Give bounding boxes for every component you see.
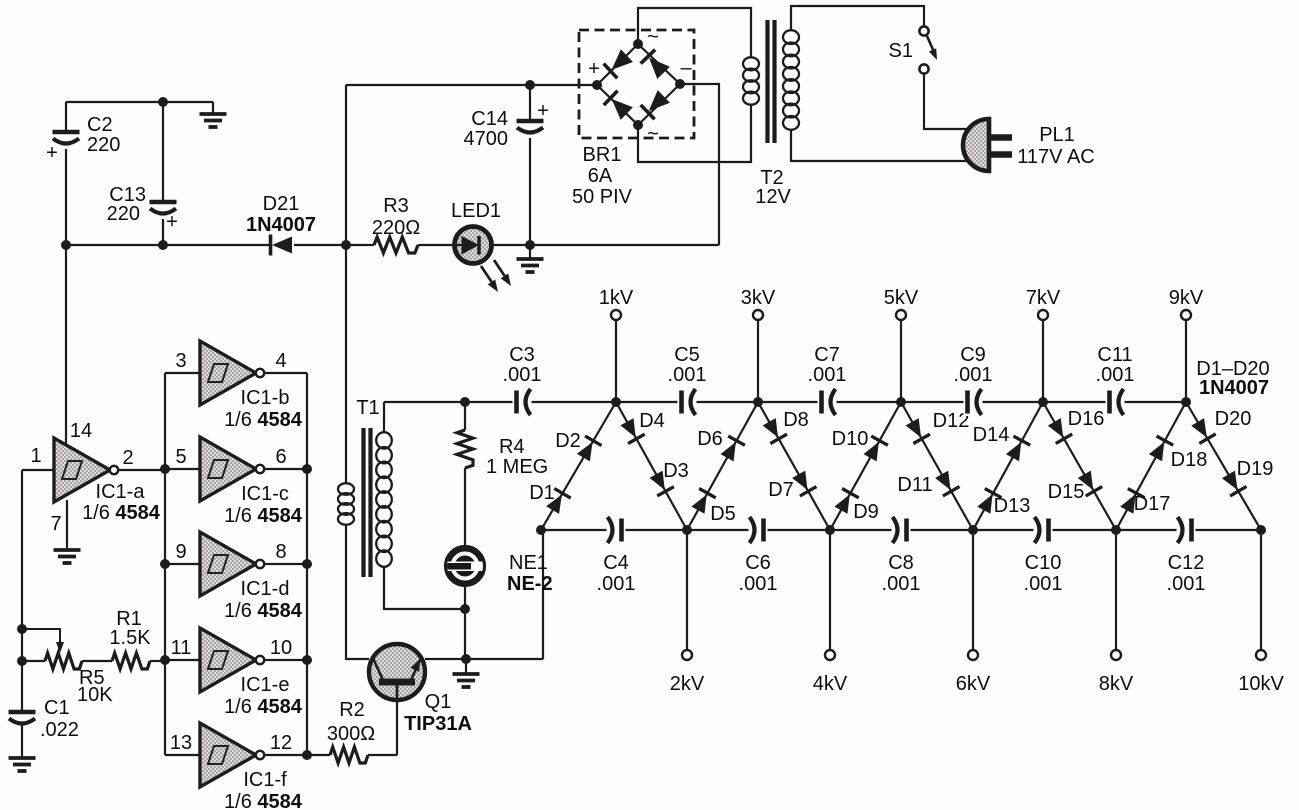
- wire output bus: [306, 373, 308, 755]
- wire IC1-f output: [264, 754, 307, 756]
- svg-text:D3: D3: [663, 460, 689, 482]
- wire ladder up-leg 4: [973, 402, 1043, 530]
- svg-text:.022: .022: [40, 719, 79, 741]
- diode D6 symbol: [721, 436, 745, 461]
- switch S1: [919, 26, 937, 73]
- svg-text:C9: C9: [960, 344, 986, 366]
- svg-text:C7: C7: [814, 344, 840, 366]
- svg-text:1 MEG: 1 MEG: [486, 456, 548, 478]
- diode D9 symbol: [834, 489, 858, 514]
- wire Q1 base lead: [396, 701, 398, 755]
- junction: [460, 604, 470, 614]
- wire bottom rail to D21: [66, 244, 272, 246]
- wire BR1 top to T2 primary: [638, 8, 751, 58]
- junction: [158, 97, 168, 107]
- wire top supply rail: [346, 84, 597, 86]
- svg-text:R2: R2: [339, 699, 365, 721]
- diode D15 symbol: [1078, 471, 1103, 496]
- wire IC1-b input: [165, 372, 200, 374]
- svg-text:D8: D8: [783, 409, 809, 431]
- wire ladder up-leg 1: [541, 402, 616, 530]
- svg-text:C10: C10: [1025, 552, 1062, 574]
- junction node 7kV: [1038, 397, 1048, 407]
- wire R2 to Q1 base: [368, 754, 397, 756]
- BR1 node ~ top: [633, 39, 643, 49]
- junction: [525, 240, 535, 250]
- transistor Q1: [369, 644, 425, 700]
- diode D2 symbol: [577, 436, 602, 461]
- LED LED1: [455, 227, 492, 264]
- junction: [158, 240, 168, 250]
- svg-text:IC1-c: IC1-c: [241, 483, 289, 505]
- svg-text:D15: D15: [1048, 481, 1085, 503]
- wire NE1 bottom: [464, 585, 466, 659]
- ground C1: [9, 758, 36, 771]
- junction: [17, 624, 27, 634]
- svg-text:D20: D20: [1215, 408, 1252, 430]
- svg-text:C2: C2: [87, 114, 113, 136]
- svg-text:D18: D18: [1171, 449, 1208, 471]
- svg-text:.001: .001: [1096, 364, 1135, 386]
- junction output bus: [302, 750, 312, 760]
- LED1 light arrows: [481, 260, 506, 284]
- wire C14 bottom lead: [529, 138, 531, 245]
- diode D20 symbol: [1191, 418, 1216, 443]
- junction node 3kV: [753, 397, 763, 407]
- inverter IC1-a: [54, 438, 118, 502]
- wire R4 to NE1: [464, 468, 466, 545]
- wire ladder down-leg 4: [1043, 402, 1116, 530]
- svg-text:3kV: 3kV: [741, 287, 776, 309]
- svg-text:6: 6: [275, 446, 286, 468]
- svg-text:C5: C5: [674, 344, 700, 366]
- wire 10kV stub: [1260, 530, 1262, 650]
- wire ladder return: [542, 530, 544, 659]
- diode D5 symbol: [691, 489, 715, 514]
- resistor R4: [457, 430, 473, 468]
- junction input bus: [160, 655, 170, 665]
- capacitor C3: [513, 388, 532, 416]
- diode D10 symbol: [864, 436, 888, 461]
- wire 5kV stub: [900, 320, 902, 402]
- svg-text:3: 3: [175, 350, 186, 372]
- diode D21 symbol: [271, 235, 293, 256]
- capacitor C5: [678, 388, 697, 416]
- wire ladder down-leg 2: [758, 402, 830, 530]
- wire ladder up-leg 2: [687, 402, 758, 530]
- svg-text:TIP31A: TIP31A: [404, 713, 472, 735]
- svg-text:9: 9: [175, 541, 186, 563]
- diode D11 symbol: [935, 471, 959, 496]
- wire IC1-d input: [165, 563, 200, 565]
- ground driver: [453, 674, 480, 687]
- svg-text:C8: C8: [888, 552, 914, 574]
- wire Q1 emitter to ladder: [425, 658, 543, 660]
- diode D8 symbol: [763, 418, 787, 443]
- inverter IC1-b: [200, 341, 264, 405]
- wire IC1-b output: [264, 372, 307, 374]
- svg-text:1/6 4584: 1/6 4584: [224, 791, 303, 810]
- svg-text:.001: .001: [668, 364, 707, 386]
- transformer T2 secondary winding: [783, 30, 799, 130]
- svg-text:1N4007: 1N4007: [1199, 377, 1269, 399]
- wire vertical supply: [345, 85, 347, 245]
- svg-text:1/6 4584: 1/6 4584: [82, 502, 161, 524]
- node terminal 2kV: [682, 650, 692, 660]
- svg-text:.001: .001: [1024, 573, 1063, 595]
- inverter IC1-e: [200, 628, 264, 692]
- svg-text:D2: D2: [555, 430, 581, 452]
- node terminal 1kV: [611, 310, 621, 320]
- wire BR1 diamond: [597, 44, 680, 125]
- svg-text:~: ~: [647, 123, 659, 145]
- wire BR1 minus to ground rail: [680, 84, 719, 245]
- svg-text:14: 14: [70, 420, 92, 442]
- svg-text:C3: C3: [509, 344, 535, 366]
- capacitor C7: [818, 388, 837, 416]
- svg-text:.001: .001: [808, 364, 847, 386]
- junction node 6kV: [968, 525, 978, 535]
- svg-text:T1: T1: [356, 397, 379, 419]
- svg-text:4: 4: [275, 350, 286, 372]
- junction node 1kV: [611, 397, 621, 407]
- svg-text:13: 13: [170, 732, 192, 754]
- wire ground stub: [529, 245, 531, 258]
- diode D1 symbol: [546, 489, 571, 514]
- svg-text:+: +: [537, 100, 549, 122]
- wire 6kV stub: [972, 530, 974, 650]
- wire R5 to R1: [82, 660, 112, 662]
- node terminal 4kV: [825, 650, 835, 660]
- svg-text:220: 220: [107, 203, 140, 225]
- node terminal 3kV: [753, 310, 763, 320]
- wire T1 secondary top: [383, 402, 385, 433]
- wire T1 primary to Q1 collector: [346, 524, 369, 659]
- resistor R1: [112, 653, 150, 669]
- svg-text:.001: .001: [954, 364, 993, 386]
- wire C13 bottom lead: [162, 219, 164, 245]
- svg-text:IC1-d: IC1-d: [241, 578, 290, 600]
- plug PL1: [963, 119, 1012, 171]
- wire ladder up-leg 3: [830, 402, 901, 530]
- svg-text:+: +: [46, 142, 58, 164]
- junction input bus: [160, 559, 170, 569]
- diode D3 symbol: [650, 471, 674, 496]
- BR1 node - right: [675, 79, 685, 89]
- svg-text:C12: C12: [1168, 552, 1205, 574]
- svg-text:1/6 4584: 1/6 4584: [224, 696, 303, 718]
- svg-text:IC1-a: IC1-a: [96, 481, 146, 503]
- wire to IC1-a pin 14: [65, 245, 67, 446]
- wire 7kV stub: [1042, 320, 1044, 402]
- svg-text:C1: C1: [44, 697, 70, 719]
- svg-text:.001: .001: [503, 364, 542, 386]
- svg-text:D6: D6: [697, 428, 723, 450]
- capacitor C13 symbol: [150, 202, 177, 214]
- wire top-left rail: [66, 101, 213, 103]
- svg-text:6kV: 6kV: [956, 673, 991, 695]
- wire 3kV stub: [757, 320, 759, 402]
- wire ladder down-leg 1: [616, 402, 687, 530]
- capacitor C12: [1177, 516, 1196, 544]
- svg-text:PL1: PL1: [1039, 124, 1075, 146]
- svg-text:4700: 4700: [464, 128, 509, 150]
- junction output bus: [302, 559, 312, 569]
- wire T2 secondary bottom to PL1: [791, 129, 970, 161]
- neon lamp NE1: [443, 547, 484, 585]
- wire D21 to node: [294, 244, 346, 246]
- wire 9kV stub: [1185, 320, 1187, 402]
- svg-text:LED1: LED1: [451, 200, 501, 222]
- svg-text:IC1-e: IC1-e: [241, 674, 290, 696]
- diode D17 symbol: [1120, 489, 1144, 514]
- svg-text:.001: .001: [597, 573, 636, 595]
- svg-text:C11: C11: [1097, 344, 1132, 366]
- node terminal 6kV: [968, 650, 978, 660]
- capacitor C8: [892, 516, 911, 544]
- wire T2 secondary top to S1: [791, 6, 924, 31]
- svg-text:D9: D9: [853, 501, 879, 523]
- wire ground stub: [212, 102, 214, 113]
- svg-text:D14: D14: [973, 424, 1010, 446]
- junction node 5kV: [896, 397, 906, 407]
- svg-text:D17: D17: [1134, 493, 1171, 515]
- svg-text:1/6 4584: 1/6 4584: [224, 409, 303, 431]
- wire ladder top rail: [384, 401, 1186, 403]
- resistor R5 (pot): [45, 653, 82, 669]
- svg-text:C14: C14: [471, 108, 508, 130]
- diode D19 symbol: [1222, 471, 1247, 496]
- svg-text:7: 7: [50, 513, 61, 535]
- capacitor C14 symbol: [517, 121, 544, 133]
- svg-text:117V AC: 117V AC: [1017, 146, 1094, 168]
- ground: [200, 114, 227, 127]
- wire C13 top lead: [162, 102, 164, 200]
- wire 2kV stub: [686, 530, 688, 650]
- svg-text:R3: R3: [383, 195, 409, 217]
- svg-text:NE1: NE1: [509, 552, 548, 574]
- svg-text:10kV: 10kV: [1238, 673, 1284, 695]
- wire IC1-c output: [264, 468, 307, 470]
- junction output bus: [302, 655, 312, 665]
- diode D4 symbol: [620, 418, 644, 443]
- wire C14 top lead: [529, 85, 531, 119]
- svg-text:5kV: 5kV: [884, 287, 919, 309]
- junction node 10kV: [1256, 525, 1266, 535]
- wire IC1-f input: [165, 754, 200, 756]
- svg-text:.001: .001: [739, 573, 778, 595]
- wire output bus to R2: [307, 754, 330, 756]
- wire ladder down-leg 3: [901, 402, 973, 530]
- inverter IC1-c: [200, 437, 264, 501]
- BR1 node ~ bottom: [633, 120, 643, 130]
- svg-text:1N4007: 1N4007: [246, 214, 316, 236]
- capacitor C6: [749, 516, 768, 544]
- svg-text:1kV: 1kV: [599, 287, 634, 309]
- capacitor C2 symbol: [53, 132, 80, 144]
- diode D16 symbol: [1048, 418, 1072, 443]
- BR1 diode top-left symbol: [604, 49, 633, 78]
- svg-text:5: 5: [175, 446, 186, 468]
- capacitor C1 symbol: [9, 712, 36, 724]
- transformer T2 primary winding: [743, 57, 759, 104]
- wire IC1-d output: [264, 563, 307, 565]
- svg-text:7kV: 7kV: [1026, 287, 1061, 309]
- node terminal 10kV: [1256, 650, 1266, 660]
- junction node 2kV: [682, 525, 692, 535]
- wire 4kV stub: [829, 530, 831, 650]
- junction node 4kV: [825, 525, 835, 535]
- svg-text:Q1: Q1: [425, 691, 452, 713]
- wire to R5: [22, 660, 45, 662]
- node terminal 5kV: [896, 310, 906, 320]
- svg-text:R4: R4: [499, 436, 525, 458]
- wire T1 secondary bottom to NE1: [384, 566, 465, 609]
- svg-text:50 PIV: 50 PIV: [572, 186, 633, 208]
- junction R4/T1/C3: [460, 397, 470, 407]
- svg-text:D21: D21: [263, 193, 300, 215]
- svg-text:D4: D4: [639, 410, 665, 432]
- junction: [17, 656, 27, 666]
- transformer T1 primary winding: [338, 483, 354, 525]
- svg-text:–: –: [680, 57, 692, 79]
- junction input bus: [160, 464, 170, 474]
- svg-text:10: 10: [270, 637, 292, 659]
- transformer T1 secondary winding: [376, 432, 392, 567]
- inverter IC1-d: [200, 532, 264, 596]
- resistor R3: [374, 237, 418, 253]
- wire R3 to LED1: [418, 244, 454, 246]
- wire 1kV stub: [615, 320, 617, 402]
- inverter IC1-f: [200, 723, 264, 787]
- wire IC1-e input: [165, 659, 200, 661]
- svg-text:220Ω: 220Ω: [372, 217, 420, 239]
- svg-text:~: ~: [647, 26, 659, 48]
- diode D12 symbol: [906, 418, 930, 443]
- junction node: [536, 525, 546, 535]
- svg-text:+: +: [166, 211, 178, 233]
- capacitor C4: [607, 516, 626, 544]
- svg-text:S1: S1: [889, 40, 913, 62]
- diode D7 symbol: [792, 471, 816, 496]
- svg-text:C6: C6: [745, 552, 771, 574]
- svg-text:12: 12: [270, 732, 292, 754]
- svg-text:10K: 10K: [77, 684, 113, 706]
- wire C1 to ground: [21, 725, 23, 757]
- svg-text:D7: D7: [768, 479, 794, 501]
- potentiometer R5 wiper: [22, 629, 64, 653]
- transformer T1 core: [364, 428, 371, 577]
- svg-text:220: 220: [87, 134, 120, 156]
- svg-text:D16: D16: [1068, 408, 1105, 430]
- BR1 diode bottom-right symbol: [641, 90, 670, 119]
- wire LED1 to bridge minus: [491, 244, 719, 246]
- node terminal 9kV: [1181, 310, 1191, 320]
- svg-text:6A: 6A: [588, 165, 613, 187]
- svg-text:D5: D5: [710, 503, 736, 525]
- junction output bus: [302, 464, 312, 474]
- junction node: [341, 240, 351, 250]
- wire IC1-e output: [264, 659, 307, 661]
- svg-text:D13: D13: [994, 495, 1031, 517]
- diode D18 symbol: [1149, 436, 1173, 461]
- capacitor C11: [1106, 388, 1125, 416]
- diode D13 symbol: [977, 489, 1001, 514]
- svg-text:D1: D1: [529, 482, 555, 504]
- wire C2 bottom lead: [65, 149, 67, 245]
- svg-text:BR1: BR1: [583, 144, 622, 166]
- svg-text:IC1-f: IC1-f: [243, 769, 287, 791]
- svg-text:NE-2: NE-2: [507, 573, 553, 595]
- bridge rectifier BR1 dashed box: [579, 30, 694, 138]
- svg-text:D11: D11: [897, 474, 932, 496]
- svg-text:2: 2: [122, 447, 133, 469]
- wire IC1-a pin 1 input: [22, 469, 54, 471]
- wire R1 to input bus: [150, 660, 165, 662]
- wire IC1-a pin 7: [66, 500, 68, 548]
- capacitor C9: [964, 388, 983, 416]
- wire supply to T1 primary: [345, 245, 347, 484]
- diode D14 symbol: [1006, 436, 1030, 461]
- svg-text:D19: D19: [1237, 458, 1274, 480]
- wire C2 top lead: [65, 102, 67, 131]
- junction: [525, 80, 535, 90]
- svg-text:11: 11: [171, 637, 192, 659]
- wire 8kV stub: [1115, 530, 1117, 650]
- svg-text:4kV: 4kV: [813, 673, 848, 695]
- wire IC1-c input: [165, 468, 200, 470]
- svg-text:8kV: 8kV: [1099, 673, 1134, 695]
- wire ladder up-leg 5: [1116, 402, 1186, 530]
- svg-text:1: 1: [30, 445, 41, 467]
- wire R4 top lead: [464, 402, 466, 430]
- svg-text:12V: 12V: [755, 186, 791, 208]
- wire S1 to PL1: [924, 74, 970, 129]
- svg-text:D10: D10: [832, 428, 869, 450]
- node terminal 7kV: [1038, 310, 1048, 320]
- svg-text:8: 8: [275, 541, 286, 563]
- svg-text:2kV: 2kV: [670, 673, 705, 695]
- svg-text:1/6 4584: 1/6 4584: [224, 505, 303, 527]
- wire node to R3: [346, 244, 374, 246]
- svg-text:300Ω: 300Ω: [327, 723, 375, 745]
- svg-text:9kV: 9kV: [1169, 287, 1204, 309]
- ground: [517, 259, 544, 272]
- wire ladder bottom rail: [541, 529, 1261, 531]
- svg-text:+: +: [588, 58, 600, 80]
- svg-text:1/6 4584: 1/6 4584: [224, 600, 303, 622]
- junction node 8kV: [1111, 525, 1121, 535]
- svg-text:.001: .001: [882, 573, 921, 595]
- ground IC1-a pin 7: [54, 550, 81, 563]
- junction: [61, 240, 71, 250]
- junction node 9kV: [1181, 397, 1191, 407]
- capacitor C10: [1034, 516, 1053, 544]
- wire left feedback rail: [21, 470, 23, 710]
- BR1 diode top-right symbol: [641, 50, 670, 79]
- BR1 node + left: [592, 80, 602, 90]
- svg-text:.001: .001: [1167, 573, 1206, 595]
- wire BR1 bottom to T2 primary: [638, 104, 751, 162]
- wire ladder down-leg 5: [1186, 402, 1261, 530]
- svg-text:1.5K: 1.5K: [109, 627, 151, 649]
- transformer T2 core: [768, 20, 775, 143]
- svg-text:IC1-b: IC1-b: [241, 387, 290, 409]
- wire input bus: [164, 373, 166, 755]
- node terminal 8kV: [1111, 650, 1121, 660]
- wire IC1-a pin 2 output: [118, 469, 165, 471]
- junction: [461, 654, 471, 664]
